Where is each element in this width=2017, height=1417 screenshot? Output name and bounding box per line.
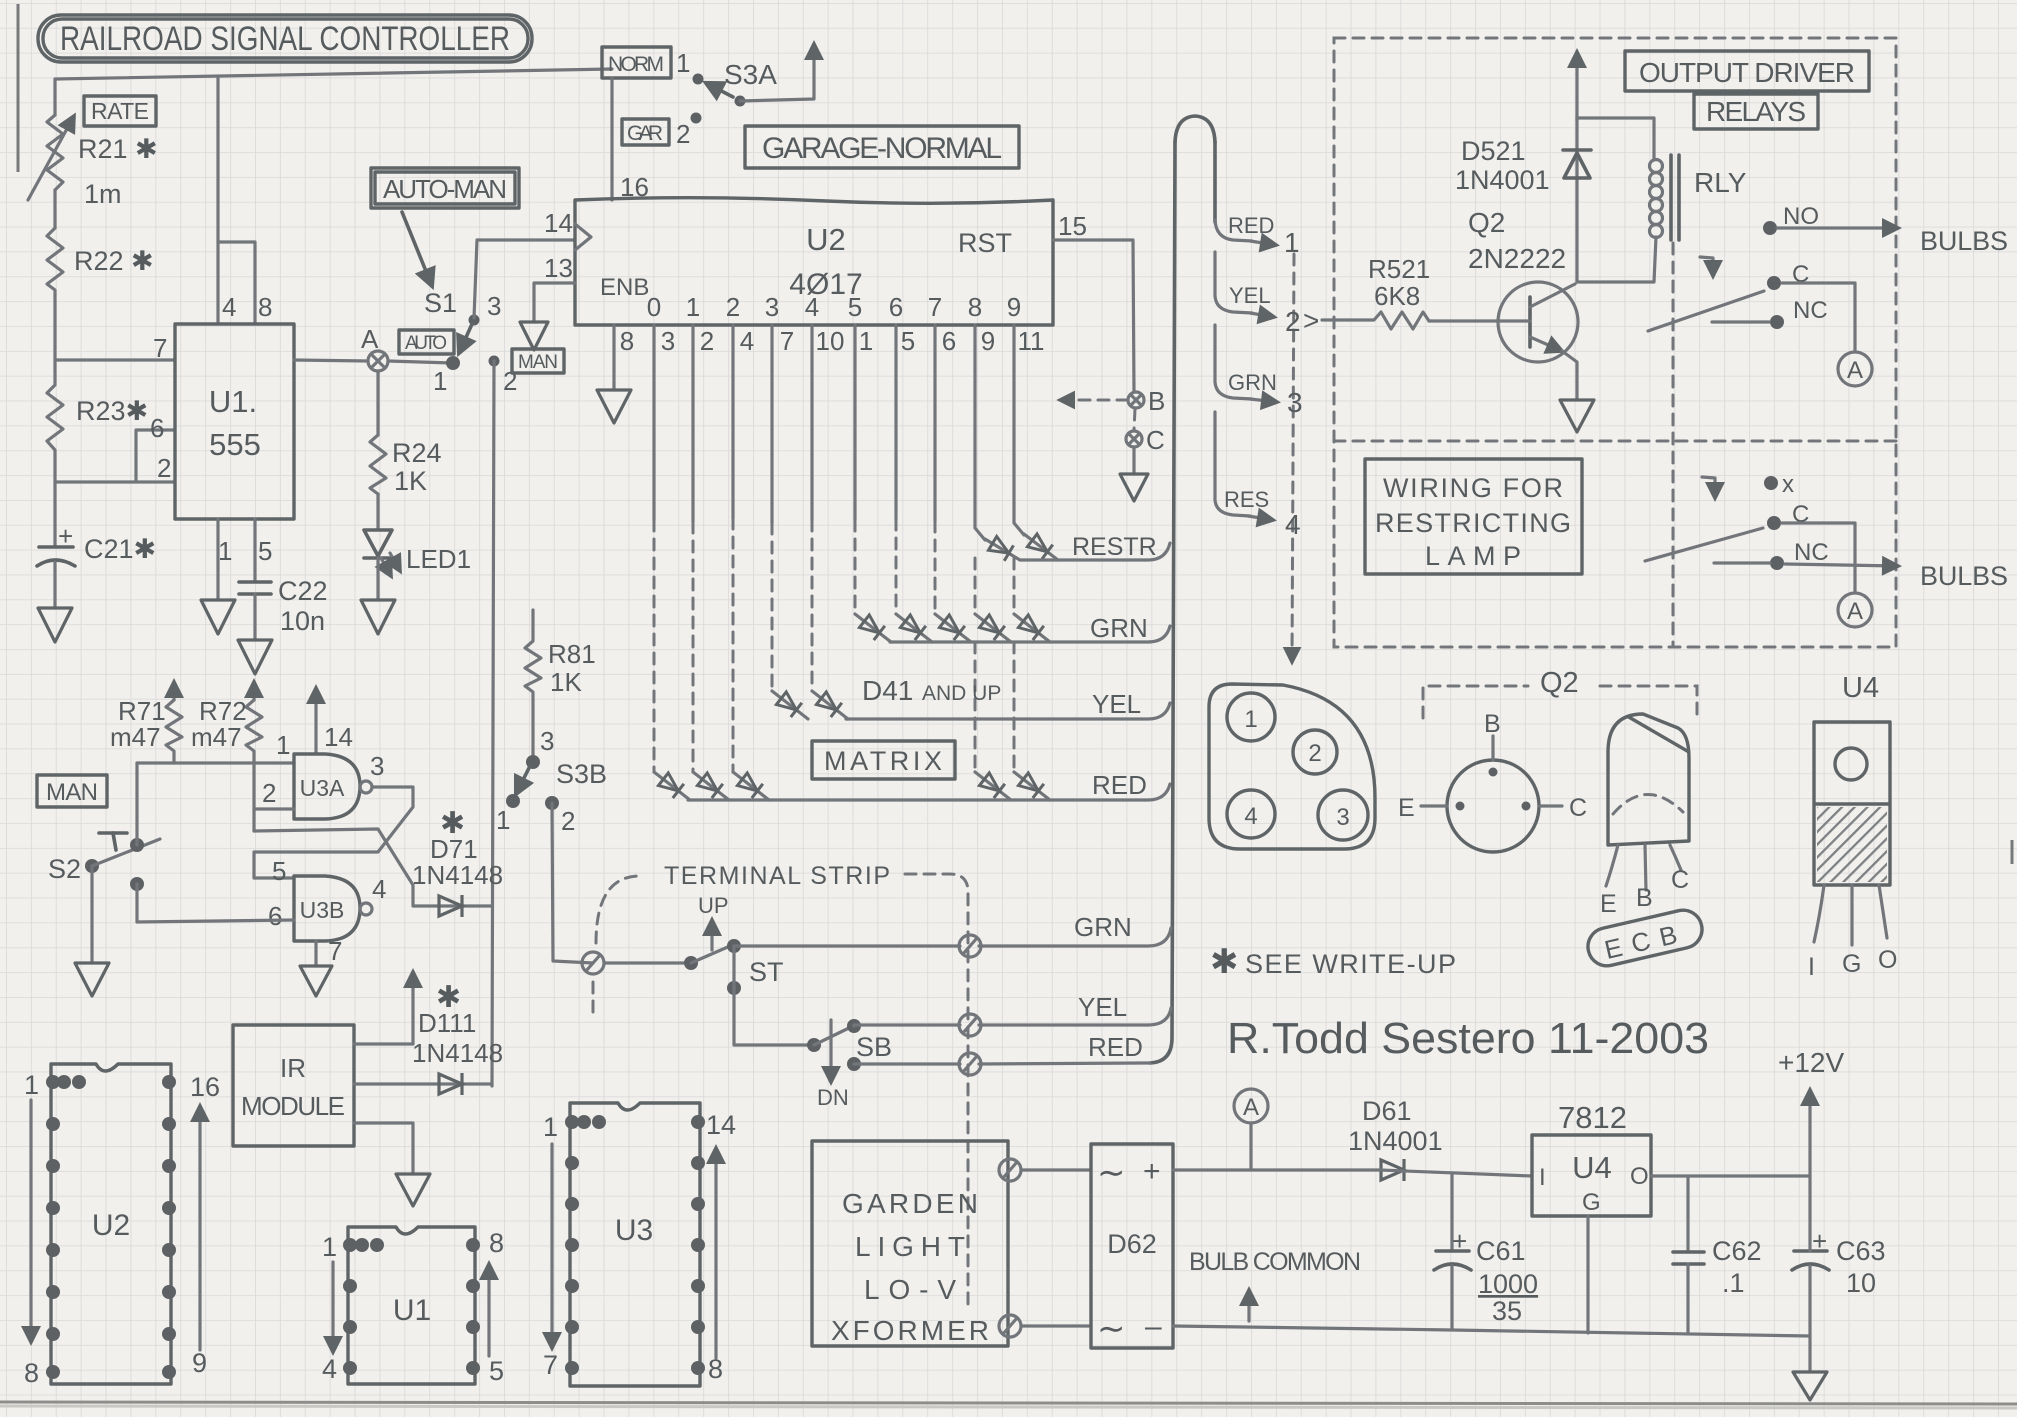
svg-text:4: 4: [222, 292, 236, 322]
svg-text:Q2: Q2: [1540, 667, 1579, 699]
svg-text:8: 8: [620, 326, 634, 356]
svg-text:XFORMER: XFORMER: [831, 1315, 989, 1346]
ground under C21: [38, 608, 72, 642]
svg-text:8: 8: [489, 1228, 504, 1258]
svg-text:7: 7: [780, 326, 794, 356]
node A feed: [1234, 1089, 1268, 1170]
wire pin8 VSS to ground: [612, 325, 615, 390]
wire arrow from AUTO-MAN to S1: [402, 212, 432, 286]
svg-text:RED: RED: [1092, 770, 1147, 800]
regulator U4 7812 box: [1532, 1100, 1651, 1216]
wire DC positive rail: [1173, 1168, 1380, 1171]
ground under C: [1120, 474, 1148, 501]
wire out5: [853, 325, 856, 520]
capacitor C21: [37, 482, 156, 608]
wire regulator ground leg: [1586, 1216, 1589, 1333]
wire out4: [810, 325, 813, 520]
svg-text:4: 4: [372, 874, 386, 904]
wire pin8 bracket: [218, 242, 255, 324]
svg-text:6: 6: [268, 901, 282, 931]
node C (circle-X): [1126, 409, 1165, 474]
wire S2 upper contact to pin1 wire: [135, 763, 138, 845]
svg-text:1: 1: [218, 536, 232, 566]
svg-text:1: 1: [859, 326, 873, 356]
svg-text:14: 14: [324, 722, 353, 752]
svg-text:6K8: 6K8: [1374, 281, 1420, 311]
dashed divider: [1334, 440, 1896, 443]
svg-text:10: 10: [816, 326, 845, 356]
svg-text:R23✱: R23✱: [76, 396, 148, 426]
svg-text:NC: NC: [1794, 539, 1829, 566]
svg-text:MODULE: MODULE: [241, 1091, 345, 1121]
svg-text:RATE: RATE: [91, 98, 149, 124]
svg-text:x: x: [1782, 471, 1794, 498]
GARDEN LIGHT LO-V XFORMER box: [812, 1141, 1008, 1346]
GAR label box: [622, 113, 702, 150]
IC package U3 DIP-14: [543, 1103, 736, 1386]
wire pin2 stub: [254, 807, 294, 810]
RATE label box: [84, 96, 156, 126]
wire S1-3 to U2 pin14: [474, 240, 575, 318]
wire RES tab: [1215, 412, 1250, 516]
svg-text:AUTO: AUTO: [405, 333, 447, 354]
svg-text:3: 3: [1336, 804, 1349, 831]
svg-text:UP: UP: [698, 893, 729, 918]
switch S1: [424, 288, 517, 396]
svg-text:RESTR: RESTR: [1072, 533, 1157, 561]
svg-text:GRN: GRN: [1090, 613, 1148, 643]
svg-text:1N4148: 1N4148: [412, 1038, 503, 1068]
svg-text:SEE WRITE-UP: SEE WRITE-UP: [1245, 949, 1457, 979]
svg-text:I: I: [1539, 1164, 1546, 1191]
wire YEL tab: [1215, 252, 1252, 313]
MAN label box: [37, 775, 107, 807]
wire U3B pin7 to ground: [314, 941, 317, 966]
wire ST branch down to SB: [727, 981, 741, 995]
arrow bulb common: [1247, 1290, 1250, 1321]
switch ST: [684, 893, 784, 987]
svg-text:C62: C62: [1712, 1236, 1762, 1266]
svg-text:GARAGE-NORMAL: GARAGE-NORMAL: [762, 132, 1002, 165]
svg-text:1K: 1K: [394, 466, 427, 496]
diode D61: [1348, 1096, 1532, 1181]
resistor R24: [370, 371, 442, 530]
svg-text:15: 15: [1058, 211, 1087, 241]
wire cross-couple out3 to pin5: [254, 787, 413, 878]
wire RED bus: [688, 784, 1170, 800]
svg-text:GRN: GRN: [1074, 912, 1132, 942]
wire RED tab: [1215, 220, 1252, 241]
svg-text:2: 2: [262, 778, 276, 808]
svg-text:+: +: [1452, 1226, 1467, 1256]
svg-text:6: 6: [889, 292, 903, 322]
wire bundle top arc: [1175, 116, 1215, 142]
svg-text:1: 1: [24, 1070, 39, 1100]
relay contact set A: [1648, 203, 2008, 386]
svg-text:m47: m47: [110, 722, 161, 752]
svg-text:U1: U1: [393, 1294, 431, 1327]
node B (circle-X): [1060, 386, 1165, 416]
svg-text:10: 10: [1846, 1268, 1876, 1298]
svg-text:C61: C61: [1476, 1236, 1526, 1266]
svg-text:E: E: [1398, 794, 1415, 822]
svg-text:YEL: YEL: [1092, 689, 1141, 719]
svg-text:S2: S2: [48, 854, 81, 884]
svg-text:14: 14: [706, 1110, 736, 1140]
relay RLY coil: [1577, 155, 1747, 282]
switch S3B: [496, 726, 607, 836]
svg-text:m47: m47: [191, 722, 242, 752]
svg-text:Q2: Q2: [1468, 207, 1505, 238]
diode matrix GRN row: [855, 614, 1050, 642]
svg-text:IR: IR: [280, 1053, 306, 1083]
svg-text:OUTPUT DRIVER: OUTPUT DRIVER: [1639, 57, 1855, 88]
wire out8: [975, 325, 985, 540]
svg-text:4: 4: [740, 326, 754, 356]
svg-text:BULBS: BULBS: [1920, 561, 2008, 591]
svg-text:4: 4: [322, 1354, 337, 1384]
Q2 pinout dashed bracket: [1423, 667, 1697, 718]
node A (circle-X): [294, 324, 460, 371]
svg-text:C21✱: C21✱: [84, 534, 156, 564]
svg-text:RED: RED: [1088, 1032, 1143, 1062]
Q2 TO-92 package: [1600, 714, 1689, 918]
svg-text:10n: 10n: [280, 606, 325, 636]
svg-text:LO-V: LO-V: [864, 1274, 956, 1305]
svg-text:NO: NO: [1783, 203, 1819, 230]
wire MAN line down: [492, 361, 494, 1086]
svg-text:8: 8: [968, 292, 982, 322]
wire GRN tab: [1215, 325, 1252, 399]
svg-text:R521: R521: [1368, 254, 1430, 284]
wire out6: [894, 325, 897, 519]
svg-text:U3A: U3A: [300, 775, 345, 801]
svg-text:C22: C22: [278, 576, 328, 606]
svg-text:A: A: [1847, 357, 1863, 384]
svg-text:2: 2: [1308, 740, 1321, 767]
svg-text:1N4001: 1N4001: [1455, 165, 1550, 195]
svg-text:9: 9: [1007, 292, 1021, 322]
svg-text:WIRING FOR: WIRING FOR: [1383, 473, 1563, 503]
ground under C22: [238, 640, 272, 674]
diode D111: [354, 981, 503, 1095]
svg-text:>: >: [1303, 305, 1319, 336]
svg-text:AUTO-MAN: AUTO-MAN: [383, 174, 507, 204]
svg-text:+: +: [1812, 1226, 1827, 1256]
svg-text:O: O: [1878, 946, 1897, 974]
svg-text:U3B: U3B: [300, 897, 345, 923]
paper left edge mark: [17, 4, 20, 172]
svg-text:2: 2: [157, 453, 171, 483]
note SEE WRITE-UP: [1210, 943, 1457, 981]
svg-text:7: 7: [543, 1350, 558, 1380]
RELAYS label box: [1694, 94, 1818, 129]
wire S3A up arrow: [740, 44, 814, 101]
switch SB: [807, 1019, 892, 1110]
NAND gate U3B: [294, 876, 372, 941]
diode matrix RESTR row: [985, 533, 1058, 561]
svg-text:–: –: [1145, 1310, 1162, 1343]
U4 TO-220 package: [1808, 672, 1897, 981]
diode matrix RED row right: [975, 772, 1050, 800]
svg-text:D111: D111: [418, 1008, 476, 1038]
diode D41 matrix RED row left: [654, 772, 769, 800]
IC package U2 DIP-16: [24, 1064, 220, 1388]
resistor R21 (pot): [28, 79, 158, 228]
svg-text:0: 0: [647, 292, 661, 322]
svg-text:1m: 1m: [84, 179, 122, 209]
OUTPUT DRIVER label box: [1625, 51, 1869, 91]
relay contact set B: [1645, 471, 2008, 627]
screw terminal xformer top: [999, 1159, 1021, 1181]
wire YEL bus: [846, 703, 1170, 719]
svg-text:1: 1: [276, 730, 290, 760]
resistor R71: [110, 682, 182, 763]
output labels 0-9: [647, 292, 1021, 322]
svg-text:YEL: YEL: [1229, 283, 1271, 308]
svg-text:R24: R24: [392, 438, 442, 468]
svg-text:3: 3: [765, 292, 779, 322]
svg-text:MATRIX: MATRIX: [824, 746, 942, 776]
svg-text:BULBS: BULBS: [1920, 226, 2008, 256]
svg-text:R.Todd Sestero 11-2003: R.Todd Sestero 11-2003: [1227, 1014, 1709, 1063]
resistor R23: [47, 360, 148, 482]
pin number labels below box: [620, 326, 1045, 356]
wire S2 lower contact to pin6: [137, 884, 294, 922]
wire IR bottom to ground: [354, 1123, 413, 1174]
LED1: [364, 530, 471, 600]
title box RAILROAD SIGNAL CONTROLLER: [38, 15, 532, 62]
E C B oval badge: [1584, 906, 1706, 969]
svg-text:1N4148: 1N4148: [412, 860, 503, 890]
screw terminal YEL: [959, 1014, 981, 1036]
screw terminal left: [582, 952, 604, 974]
svg-text:ENB: ENB: [600, 274, 649, 301]
svg-text:+: +: [1143, 1155, 1161, 1188]
svg-text:2: 2: [503, 366, 517, 396]
svg-text:C63: C63: [1836, 1236, 1886, 1266]
svg-text:MAN: MAN: [518, 352, 558, 373]
Q2 TO-18 bottom view: [1398, 710, 1587, 852]
transistor Q2: [1429, 207, 1578, 400]
wire out2: [731, 325, 734, 518]
wire supply drop to U1: [216, 76, 219, 324]
svg-text:1: 1: [1244, 706, 1257, 733]
svg-text:2: 2: [676, 119, 690, 149]
svg-text:GAR: GAR: [627, 122, 663, 145]
svg-text:9: 9: [981, 326, 995, 356]
svg-text:A: A: [1847, 598, 1863, 625]
svg-text:.1: .1: [1722, 1268, 1745, 1298]
svg-text:GRN: GRN: [1228, 370, 1277, 395]
svg-text:S3A: S3A: [724, 59, 777, 90]
svg-text:14: 14: [544, 208, 573, 238]
svg-text:YEL: YEL: [1078, 992, 1127, 1022]
wire regulator output: [1651, 1174, 1810, 1177]
WIRING FOR RESTRICTING LAMP label box: [1365, 459, 1582, 574]
svg-text:U2: U2: [806, 222, 846, 257]
svg-text:11: 11: [1018, 326, 1045, 356]
svg-text:3: 3: [661, 326, 675, 356]
svg-text:RESTRICTING: RESTRICTING: [1375, 508, 1571, 538]
dashed terminal strip outline: [596, 876, 640, 943]
wire GRN bus: [890, 626, 1170, 642]
capacitor C62: [1673, 1176, 1762, 1334]
dashed enclosure box: [1334, 38, 1896, 647]
svg-text:2: 2: [726, 292, 740, 322]
svg-text:TERMINAL STRIP: TERMINAL STRIP: [664, 862, 892, 890]
svg-text:DN: DN: [817, 1085, 849, 1110]
screw terminal RED: [959, 1053, 981, 1075]
resistor R22: [47, 228, 154, 360]
svg-text:+: +: [58, 521, 73, 551]
svg-text:C: C: [1671, 866, 1689, 894]
svg-text:1N4001: 1N4001: [1348, 1126, 1443, 1156]
svg-text:1K: 1K: [550, 667, 582, 697]
svg-text:E: E: [1600, 890, 1617, 918]
op-amp U1 555 box: [175, 324, 294, 519]
wire pins 6-2 loop: [55, 430, 175, 482]
wire cross-couple pin2 to out4: [254, 829, 413, 905]
svg-text:G: G: [1842, 950, 1861, 978]
svg-text:D62: D62: [1107, 1229, 1157, 1259]
svg-text:2: 2: [561, 806, 575, 836]
svg-text:1: 1: [543, 1112, 558, 1142]
paper bottom edge: [0, 1402, 2017, 1404]
svg-text:LAMP: LAMP: [1425, 541, 1521, 571]
wire S2 pole to ground: [90, 866, 93, 963]
wire out3: [770, 325, 773, 523]
GARAGE-NORMAL label box: [745, 126, 1019, 168]
svg-text:B: B: [1484, 710, 1501, 738]
svg-text:3: 3: [487, 291, 501, 321]
wire coil top feed: [1577, 118, 1654, 160]
ground under LED1: [361, 600, 395, 634]
IR MODULE box: [233, 1025, 354, 1146]
diode matrix YEL row: [772, 691, 848, 719]
wire RED row: [854, 1062, 960, 1065]
svg-text:S1: S1: [424, 288, 457, 318]
wire IR top output with arrow: [354, 974, 413, 1044]
resistor R521: [1322, 254, 1430, 329]
svg-text:RED: RED: [1228, 213, 1274, 238]
ground under pin1: [201, 600, 235, 634]
svg-text:B: B: [1636, 884, 1653, 912]
svg-text:RAILROAD SIGNAL CONTROLLER: RAILROAD SIGNAL CONTROLLER: [60, 20, 510, 58]
svg-text:5: 5: [258, 536, 272, 566]
svg-text:6: 6: [942, 326, 956, 356]
svg-text:+12V: +12V: [1778, 1047, 1844, 1078]
svg-text:1: 1: [322, 1232, 337, 1262]
wire RESTR bus: [1020, 543, 1170, 560]
svg-text:7: 7: [928, 292, 942, 322]
resistor R72: [191, 682, 262, 831]
NORM label box: [602, 47, 690, 78]
wire DC negative rail: [1173, 1326, 1810, 1336]
svg-text:O: O: [1630, 1163, 1649, 1190]
resistor R81: [525, 610, 596, 762]
svg-text:2N2222: 2N2222: [1468, 243, 1566, 274]
svg-text:4: 4: [1244, 803, 1257, 830]
capacitor C61: [1434, 1173, 1538, 1330]
svg-text:4: 4: [805, 292, 819, 322]
wire NORM to U2 pin16: [610, 78, 613, 200]
wire bundle left side: [1150, 142, 1175, 1063]
svg-text:BULB COMMON: BULB COMMON: [1189, 1248, 1361, 1276]
svg-text:RLY: RLY: [1694, 167, 1747, 198]
svg-text:16: 16: [190, 1072, 220, 1102]
connector pinout shape: [1209, 684, 1375, 849]
svg-text:3: 3: [370, 751, 384, 781]
svg-text:SB: SB: [856, 1032, 892, 1062]
svg-text:C: C: [1569, 794, 1587, 822]
svg-text:LED1: LED1: [406, 544, 471, 574]
svg-text:D41: D41: [862, 675, 913, 706]
wire out7: [933, 325, 936, 521]
ground +12V rail: [1793, 1372, 1827, 1400]
AUTO-MAN label box: [371, 168, 519, 208]
AUTO label box: [399, 330, 454, 354]
svg-text:1: 1: [433, 366, 447, 396]
svg-text:U2: U2: [92, 1209, 130, 1242]
svg-text:9: 9: [192, 1348, 207, 1378]
svg-text:RST: RST: [958, 228, 1012, 258]
svg-text:1: 1: [676, 48, 690, 78]
svg-text:7: 7: [328, 936, 342, 966]
switch S3A: [693, 59, 778, 107]
svg-text:G: G: [1582, 1189, 1601, 1216]
svg-text:R81: R81: [548, 639, 596, 669]
svg-text:U4: U4: [1842, 672, 1879, 704]
svg-text:3: 3: [540, 726, 554, 756]
wire U1 pin7: [55, 358, 175, 361]
wire xformer to D62: [1021, 1168, 1091, 1171]
svg-text:2: 2: [1285, 306, 1301, 337]
svg-text:D61: D61: [1362, 1096, 1412, 1126]
wire U3A pin1 input: [137, 761, 294, 764]
wire YEL row: [854, 1025, 960, 1026]
diode D521: [1455, 118, 1591, 282]
wire bundle right side: [1213, 142, 1217, 222]
svg-text:R21 ✱: R21 ✱: [78, 134, 158, 164]
svg-text:U1.: U1.: [209, 384, 257, 419]
wire out9: [1014, 325, 1024, 535]
svg-text:2: 2: [700, 326, 714, 356]
svg-text:ST: ST: [749, 957, 784, 987]
wire U3A pin14 supply arrow: [314, 688, 317, 754]
svg-text:A: A: [361, 324, 379, 354]
svg-text:I: I: [1808, 953, 1815, 981]
svg-text:555: 555: [209, 427, 261, 462]
svg-text:∼: ∼: [1097, 1310, 1126, 1348]
svg-text:1: 1: [496, 805, 510, 835]
svg-text:S3B: S3B: [556, 759, 607, 789]
wire top supply rail: [55, 69, 612, 79]
bridge rectifier D62 box: [1091, 1144, 1173, 1348]
svg-text:4: 4: [1285, 509, 1301, 540]
svg-text:AND UP: AND UP: [922, 682, 1001, 705]
capacitor C22: [239, 519, 328, 640]
svg-text:RELAYS: RELAYS: [1706, 96, 1806, 127]
svg-text:U4: U4: [1572, 1150, 1612, 1185]
svg-text:7812: 7812: [1558, 1100, 1627, 1135]
svg-text:RES: RES: [1224, 487, 1269, 512]
wire to ST: [604, 961, 688, 964]
wire RST pin15: [1053, 240, 1134, 392]
svg-text:5: 5: [848, 292, 862, 322]
svg-text:✱: ✱: [1210, 943, 1239, 981]
svg-text:∼: ∼: [1097, 1154, 1126, 1192]
